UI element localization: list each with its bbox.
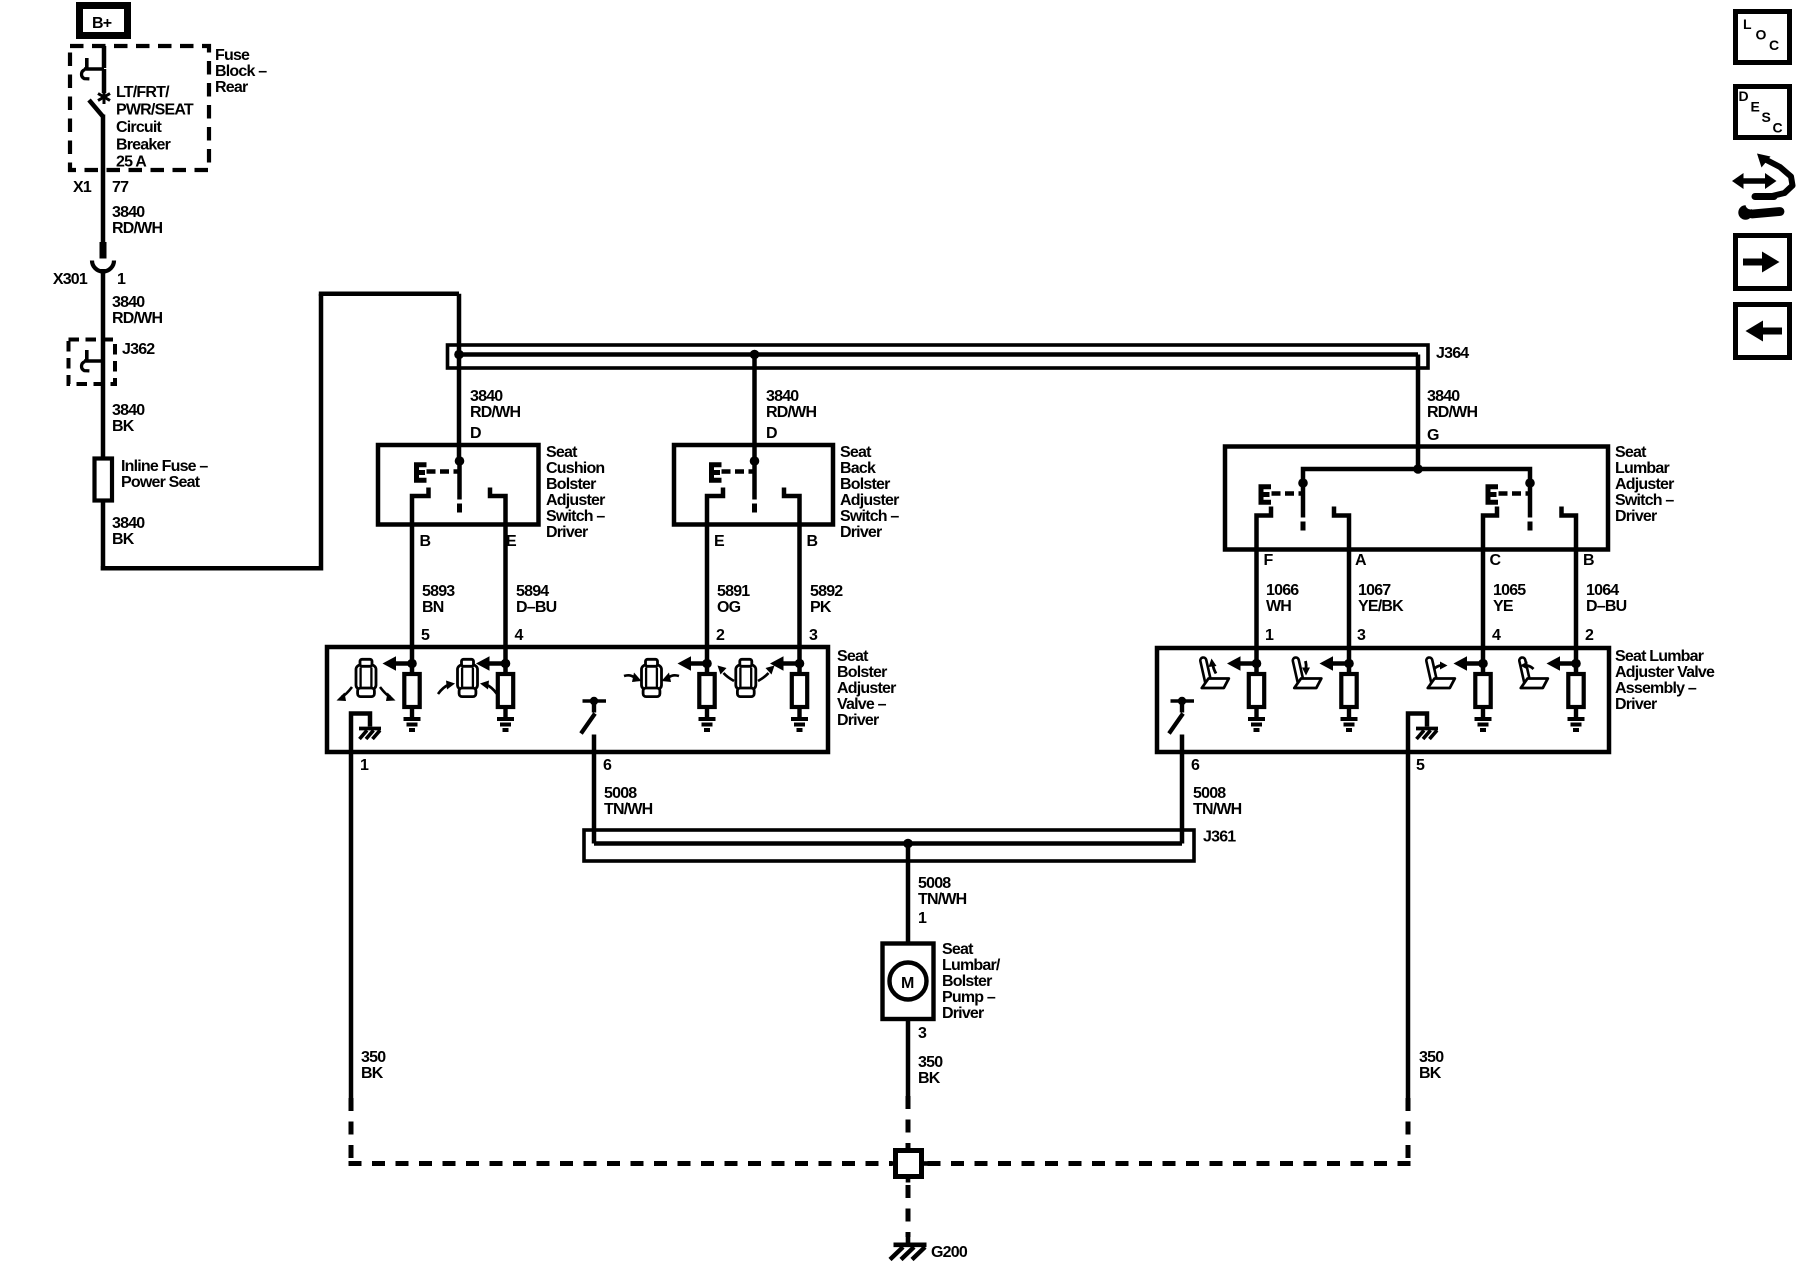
svg-text:B: B <box>420 533 431 550</box>
svg-text:Seat: Seat <box>840 444 872 461</box>
V1 L4 node dot <box>795 659 805 669</box>
switch S1 dashed link E to common <box>427 469 460 473</box>
switch S3a dashed link E to common <box>1272 491 1303 495</box>
wire X301 to J362 <box>101 269 106 340</box>
circuit breaker blade <box>89 100 103 116</box>
switch S3b dashed link E to common <box>1499 491 1530 495</box>
switch S2 contact E and wire 5891 <box>707 488 723 649</box>
svg-text:2: 2 <box>1585 627 1594 644</box>
terminal connector in J362 <box>82 350 104 371</box>
svg-text:Lumbar/: Lumbar/ <box>942 957 1001 974</box>
wire V2 switch to J361 <box>1180 735 1185 844</box>
svg-text:Block –: Block – <box>215 63 267 80</box>
svg-text:Bolster: Bolster <box>942 973 992 990</box>
svg-text:Driver: Driver <box>837 712 879 729</box>
label seat bolster adjuster valve - driver <box>837 648 896 729</box>
svg-text:X301: X301 <box>53 271 88 288</box>
switch S1 wiper <box>457 461 462 513</box>
svg-text:A: A <box>1355 552 1367 569</box>
svg-text:Adjuster: Adjuster <box>1615 476 1674 493</box>
svg-text:E: E <box>1751 99 1760 115</box>
svg-text:D–BU: D–BU <box>516 599 557 616</box>
label seat lumbar/bolster pump - driver <box>942 941 1001 1022</box>
wire pump motor down <box>906 1019 911 1096</box>
wire from B+ into fuse block <box>102 46 107 68</box>
svg-text:Pump –: Pump – <box>942 989 996 1006</box>
V2 pressure switch lever <box>1169 701 1194 734</box>
V2 L2 ground <box>1341 706 1358 730</box>
switch S3b wiper <box>1528 483 1533 531</box>
svg-text:Switch –: Switch – <box>840 508 899 525</box>
wire V1 switch to J361 <box>592 735 597 844</box>
svg-text:BK: BK <box>361 1065 384 1082</box>
svg-text:B: B <box>807 533 818 550</box>
node junction dot on J364 at D2 drop <box>750 350 760 360</box>
wire label 5891 OG <box>717 583 750 616</box>
svg-text:G: G <box>1427 427 1439 444</box>
V1 L4 ground <box>791 706 808 730</box>
switch S3b E terminal glyph <box>1488 487 1496 503</box>
svg-text:3840: 3840 <box>470 388 503 405</box>
svg-text:1067: 1067 <box>1358 582 1391 599</box>
svg-text:D: D <box>470 425 481 442</box>
wire label 3840 BK <box>112 515 145 548</box>
wire label 5894 D-BU <box>516 583 557 616</box>
svg-text:1: 1 <box>918 910 927 927</box>
valve assembly V1 seat bolster adjuster box <box>327 647 828 752</box>
svg-text:BK: BK <box>112 418 135 435</box>
svg-text:WH: WH <box>1266 598 1291 615</box>
svg-text:2: 2 <box>716 627 725 644</box>
V2 L3 ground <box>1475 706 1492 730</box>
svg-text:Valve –: Valve – <box>837 696 887 713</box>
wire label 5008 TN/WH center <box>918 875 967 908</box>
wire label 350 BK center <box>918 1054 943 1087</box>
svg-text:E: E <box>714 533 725 550</box>
svg-text:J361: J361 <box>1203 829 1236 846</box>
nav icon back arrow button <box>1736 305 1790 358</box>
svg-text:O: O <box>1756 27 1767 43</box>
label LT/FRT/PWR/SEAT circuit breaker 25 A <box>116 84 194 171</box>
splice J362 dashed box <box>69 340 116 385</box>
svg-text:Breaker: Breaker <box>116 137 171 154</box>
V1 solenoid L3 seat icon <box>642 659 662 696</box>
svg-text:Cushion: Cushion <box>546 460 604 477</box>
svg-text:J364: J364 <box>1436 345 1469 362</box>
V1 L2 coil <box>498 648 513 707</box>
wire label 3840 BK <box>112 402 145 435</box>
wire label 350 BK left <box>361 1049 386 1082</box>
V2 L4 ground <box>1568 706 1585 730</box>
svg-text:3: 3 <box>809 627 818 644</box>
svg-text:Seat: Seat <box>942 941 974 958</box>
V2 L2 motion arrow down <box>1302 661 1310 676</box>
switch S3 internal feed wire <box>1303 469 1530 483</box>
svg-text:3840: 3840 <box>112 515 145 532</box>
switch S2 wiper <box>752 461 757 513</box>
V1 L1 coil <box>404 648 419 707</box>
switch S3b common node dot <box>1525 478 1535 488</box>
ground G200 symbol <box>890 1236 927 1260</box>
svg-text:6: 6 <box>603 757 612 774</box>
svg-text:Back: Back <box>840 460 876 477</box>
svg-text:Bolster: Bolster <box>837 664 887 681</box>
V2 L1 ground <box>1248 706 1265 730</box>
V1 L3 node dot <box>702 659 712 669</box>
svg-text:Driver: Driver <box>840 524 882 541</box>
svg-text:Lumbar: Lumbar <box>1615 460 1669 477</box>
svg-text:Rear: Rear <box>215 79 248 96</box>
V2 solenoid L2 seat icon <box>1294 661 1321 689</box>
V2 solenoid L3 seat icon <box>1428 661 1455 689</box>
svg-text:1: 1 <box>360 757 369 774</box>
V1 L1 motion arrows <box>337 687 396 701</box>
svg-text:TN/WH: TN/WH <box>1193 801 1242 818</box>
switch S1 seat cushion bolster adjuster box <box>378 445 539 525</box>
V2 L1 junction arrow <box>1227 656 1258 671</box>
svg-text:Adjuster: Adjuster <box>837 680 896 697</box>
svg-text:Fuse: Fuse <box>215 47 250 64</box>
V1 case ground chassis symbol <box>359 729 381 740</box>
svg-text:1: 1 <box>1265 627 1274 644</box>
V2 L3 node dot <box>1478 659 1488 669</box>
svg-text:C: C <box>1773 120 1783 136</box>
svg-text:Driver: Driver <box>1615 696 1657 713</box>
wire label 3840 RD/WH drop D1 <box>470 388 520 421</box>
svg-text:M: M <box>901 975 914 992</box>
V2 L3 motion arrow right <box>1434 662 1448 670</box>
wire feed top horizontal <box>319 291 459 296</box>
svg-text:BK: BK <box>112 531 135 548</box>
wire label 1064 D-BU <box>1586 582 1627 615</box>
V1 solenoid L4 seat icon <box>736 659 756 696</box>
svg-text:25 A: 25 A <box>116 154 147 171</box>
switch S1 contact B and wire 5893 <box>412 488 429 649</box>
V1 L4 coil <box>792 648 807 707</box>
svg-text:C: C <box>1490 552 1502 569</box>
svg-text:BK: BK <box>1419 1065 1442 1082</box>
nav icon forward arrow button <box>1736 236 1790 289</box>
svg-text:RD/WH: RD/WH <box>112 220 162 237</box>
wire label 3840 RD/WH drop G <box>1427 388 1477 421</box>
wire 350 BK center dashed run <box>906 1096 911 1148</box>
V1 L1 ground <box>404 706 421 730</box>
svg-text:Inline Fuse –: Inline Fuse – <box>121 458 208 475</box>
svg-text:C: C <box>1769 37 1779 53</box>
svg-text:3: 3 <box>918 1025 927 1042</box>
wire label 5008 TN/WH left <box>604 785 653 818</box>
switch S3b contact B and wire 1064 <box>1562 507 1577 649</box>
label seat back bolster adjuster switch - driver <box>840 444 899 541</box>
wire 350 BK right dashed run <box>925 1098 1411 1164</box>
svg-text:5008: 5008 <box>918 875 951 892</box>
V2 L3 junction arrow <box>1454 656 1485 671</box>
svg-text:5: 5 <box>421 627 430 644</box>
svg-text:6: 6 <box>1191 757 1200 774</box>
switch S2 dashed link E to common <box>722 469 755 473</box>
svg-text:Bolster: Bolster <box>546 476 596 493</box>
V1 L2 ground <box>497 706 514 730</box>
svg-text:Assembly –: Assembly – <box>1615 680 1697 697</box>
svg-text:5893: 5893 <box>422 583 455 600</box>
wire label 1066 WH <box>1266 582 1299 615</box>
motor M1 seat lumbar/bolster pump <box>883 944 934 1020</box>
wire J361 to pump motor <box>906 844 911 945</box>
wire label 1065 YE <box>1493 582 1526 615</box>
wire label 5008 TN/WH right <box>1193 785 1242 818</box>
V1 node dot on switch bar <box>590 697 598 705</box>
V2 L1 motion arrow up <box>1209 659 1217 674</box>
label inline fuse - power seat <box>121 458 208 491</box>
svg-text:5008: 5008 <box>604 785 637 802</box>
V2 case ground elbow <box>1408 714 1427 753</box>
switch S3a contact A and wire 1067 <box>1334 507 1349 649</box>
V1 solenoid L2 seat icon <box>458 659 478 696</box>
V2 L3 coil <box>1475 648 1490 707</box>
V2 L4 motion arrow left <box>1520 662 1534 670</box>
bus J364 duct outline <box>448 345 1429 368</box>
svg-text:RD/WH: RD/WH <box>766 404 816 421</box>
svg-text:TN/WH: TN/WH <box>604 801 653 818</box>
label seat lumbar adjuster valve assembly - driver <box>1615 648 1715 713</box>
svg-text:B: B <box>1583 552 1594 569</box>
svg-text:TN/WH: TN/WH <box>918 891 967 908</box>
svg-text:Bolster: Bolster <box>840 476 890 493</box>
circuit breaker asterisk <box>98 90 110 104</box>
svg-text:LT/FRT/: LT/FRT/ <box>116 84 170 101</box>
wire drop G to seat lumbar adjuster switch <box>1416 355 1421 470</box>
V1 case ground elbow <box>351 714 370 753</box>
wire label 3840 RD/WH <box>112 204 162 237</box>
svg-text:Seat: Seat <box>1615 444 1647 461</box>
svg-text:1066: 1066 <box>1266 582 1299 599</box>
bus J361 wire <box>594 841 1182 846</box>
switch S3a wiper <box>1301 483 1306 531</box>
nav icon LOC button <box>1736 12 1790 63</box>
V1 L2 node dot <box>501 659 511 669</box>
V2 L4 coil <box>1568 648 1583 707</box>
bus J361 duct outline <box>584 830 1194 861</box>
svg-text:5892: 5892 <box>810 583 843 600</box>
svg-text:B+: B+ <box>92 15 112 32</box>
inline fuse - power seat <box>95 459 113 501</box>
label fuse block - rear <box>215 47 267 96</box>
svg-text:5008: 5008 <box>1193 785 1226 802</box>
V2 solenoid L4 seat icon <box>1521 661 1548 689</box>
switch S1 E terminal glyph <box>417 465 425 481</box>
nav icon DESC button <box>1736 87 1790 138</box>
wire label 1067 YE/BK <box>1358 582 1404 615</box>
V2 L4 junction arrow <box>1547 656 1578 671</box>
node feed dot <box>1413 464 1423 474</box>
V2 L1 node dot <box>1252 659 1262 669</box>
V2 case ground chassis symbol <box>1416 729 1438 740</box>
svg-text:5894: 5894 <box>516 583 549 600</box>
svg-text:3: 3 <box>1357 627 1366 644</box>
svg-text:YE/BK: YE/BK <box>1358 598 1404 615</box>
wire splice to ground G200 dashed <box>906 1185 911 1237</box>
V2 L2 coil <box>1341 648 1356 707</box>
svg-text:D: D <box>766 425 777 442</box>
svg-text:RD/WH: RD/WH <box>1427 404 1477 421</box>
svg-text:Power Seat: Power Seat <box>121 474 201 491</box>
svg-text:1065: 1065 <box>1493 582 1526 599</box>
V2 L2 node dot <box>1344 659 1354 669</box>
svg-text:350: 350 <box>1419 1049 1444 1066</box>
V1 L3 junction arrow <box>678 656 709 671</box>
switch S3a E terminal glyph <box>1261 487 1269 503</box>
terminal connector in fuse block <box>82 58 104 79</box>
svg-text:Driver: Driver <box>546 524 588 541</box>
svg-text:J362: J362 <box>122 341 155 358</box>
svg-text:X1: X1 <box>73 179 92 196</box>
svg-text:5: 5 <box>1416 757 1425 774</box>
V1 L3 motion arrows <box>624 673 679 683</box>
V1 L3 ground <box>699 706 716 730</box>
svg-text:RD/WH: RD/WH <box>112 310 162 327</box>
wire V1 pin1 down <box>349 752 354 1098</box>
svg-text:D–BU: D–BU <box>1586 598 1627 615</box>
svg-text:OG: OG <box>717 599 741 616</box>
switch S3a common node dot <box>1298 478 1308 488</box>
splice ground junction square <box>889 1145 928 1183</box>
wire feed riser <box>319 294 324 571</box>
svg-text:Circuit: Circuit <box>116 119 163 136</box>
svg-text:Driver: Driver <box>1615 508 1657 525</box>
wire J362 to inline fuse <box>101 340 106 460</box>
svg-text:L: L <box>1743 16 1752 32</box>
node junction dot on J364 at D1 drop <box>454 350 464 360</box>
switch S2 common node dot <box>750 456 760 466</box>
svg-text:PWR/SEAT: PWR/SEAT <box>116 102 194 119</box>
svg-text:Adjuster: Adjuster <box>840 492 899 509</box>
V1 L4 motion arrows <box>718 666 775 682</box>
label seat lumbar adjuster switch - driver <box>1615 444 1674 525</box>
svg-text:F: F <box>1264 552 1274 569</box>
svg-text:Adjuster Valve: Adjuster Valve <box>1615 664 1715 681</box>
svg-text:BN: BN <box>422 599 444 616</box>
svg-text:G200: G200 <box>931 1244 968 1261</box>
node junction dot on J361 <box>903 839 913 849</box>
svg-text:4: 4 <box>1492 627 1501 644</box>
V1 L1 junction arrow <box>383 656 414 671</box>
svg-text:PK: PK <box>810 599 832 616</box>
svg-text:350: 350 <box>918 1054 943 1071</box>
switch S1 contact E and wire 5894 <box>490 488 506 649</box>
wire to circuit breaker <box>102 69 107 93</box>
svg-text:RD/WH: RD/WH <box>470 404 520 421</box>
svg-text:Adjuster: Adjuster <box>546 492 605 509</box>
svg-text:3840: 3840 <box>766 388 799 405</box>
wire label 3840 RD/WH <box>112 294 162 327</box>
label seat cushion bolster adjuster switch - driver <box>546 444 605 541</box>
V1 pressure switch lever <box>581 701 606 734</box>
wire label 350 BK right <box>1419 1049 1444 1082</box>
battery positive terminal B+ <box>80 6 128 36</box>
svg-text:350: 350 <box>361 1049 386 1066</box>
V2 L2 junction arrow <box>1320 656 1351 671</box>
V1 L4 junction arrow <box>770 656 801 671</box>
valve assembly V2 seat lumbar adjuster valve box <box>1157 648 1609 752</box>
V1 solenoid L1 seat icon <box>356 659 376 696</box>
wire breaker to connector X301 <box>101 115 106 244</box>
V2 solenoid L1 seat icon <box>1202 661 1229 689</box>
svg-text:3840: 3840 <box>112 402 145 419</box>
wire V2 pin5 down <box>1406 752 1411 1098</box>
svg-text:Seat Lumbar: Seat Lumbar <box>1615 648 1704 665</box>
switch S2 seat back bolster adjuster box <box>674 445 833 525</box>
switch S1 common node dot <box>455 456 465 466</box>
svg-text:3840: 3840 <box>1427 388 1460 405</box>
fuse block - rear dashed box <box>70 46 209 170</box>
switch S3a contact F and wire 1066 <box>1257 507 1272 649</box>
svg-text:Seat: Seat <box>546 444 578 461</box>
svg-text:Seat: Seat <box>837 648 869 665</box>
svg-text:4: 4 <box>515 627 524 644</box>
V2 L1 coil <box>1249 648 1264 707</box>
V1 L3 coil <box>699 648 714 707</box>
svg-text:1: 1 <box>117 271 126 288</box>
wire 350 BK left dashed run <box>349 1098 893 1164</box>
wire drop D1 to seat cushion bolster switch <box>457 294 462 461</box>
V2 L4 node dot <box>1571 659 1581 669</box>
wire drop D2 to seat back bolster switch <box>752 355 757 462</box>
svg-text:Switch –: Switch – <box>1615 492 1674 509</box>
switch S3b contact C and wire 1065 <box>1483 507 1497 649</box>
bus J364 wire <box>459 352 1418 357</box>
svg-text:YE: YE <box>1493 598 1514 615</box>
svg-text:D: D <box>1739 88 1749 104</box>
switch S2 E terminal glyph <box>712 465 720 481</box>
switch S2 contact B and wire 5892 <box>784 488 800 649</box>
wire inline fuse down <box>101 500 106 571</box>
V1 L2 motion arrows <box>438 681 497 695</box>
svg-text:3840: 3840 <box>112 204 145 221</box>
svg-text:BK: BK <box>918 1070 941 1087</box>
svg-text:S: S <box>1762 109 1771 125</box>
V1 L2 junction arrow <box>476 656 507 671</box>
wire label 5892 PK <box>810 583 843 616</box>
svg-text:E: E <box>506 533 517 550</box>
svg-text:Driver: Driver <box>942 1005 984 1022</box>
V1 L1 node dot <box>407 659 417 669</box>
connector X301 <box>92 242 114 272</box>
wire feed bottom horizontal <box>101 566 321 571</box>
svg-text:3840: 3840 <box>112 294 145 311</box>
svg-text:1064: 1064 <box>1586 582 1619 599</box>
svg-text:5891: 5891 <box>717 583 750 600</box>
switch S3 seat lumbar adjuster box <box>1225 447 1608 550</box>
wire label 5893 BN <box>422 583 455 616</box>
V2 node dot on switch bar <box>1178 697 1186 705</box>
svg-text:77: 77 <box>112 179 129 196</box>
svg-text:Switch –: Switch – <box>546 508 605 525</box>
nav icon jump double arrow with wrench <box>1732 154 1793 220</box>
wire label 3840 RD/WH drop D2 <box>766 388 816 421</box>
